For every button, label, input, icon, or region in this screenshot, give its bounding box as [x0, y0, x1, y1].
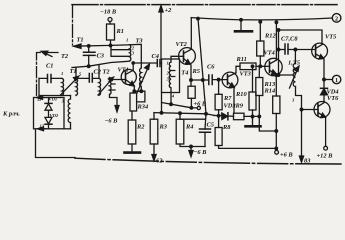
svg-text:+6 В: +6 В	[194, 101, 207, 108]
bias vertical from rail to C5	[198, 19, 206, 114]
wire emitter node to C6	[191, 79, 209, 81]
svg-text:С7,С8: С7,С8	[281, 36, 298, 43]
arrow -6V	[190, 147, 192, 153]
svg-text:VD2: VD2	[50, 113, 59, 118]
capacitor C6	[209, 75, 212, 85]
resistor R12	[259, 22, 261, 42]
svg-text:R14: R14	[264, 88, 276, 95]
chassis ground on rail	[240, 20, 242, 31]
svg-text:R10: R10	[235, 91, 247, 98]
arrow +2 to shield	[160, 7, 162, 59]
transistor VT2	[179, 48, 196, 65]
VT5 emitter down to node 1	[322, 58, 325, 79]
svg-text:R2: R2	[136, 124, 145, 131]
svg-text:С5: С5	[207, 122, 215, 129]
transformer T1 secondary winding	[76, 78, 78, 95]
VT2 emitter down	[189, 64, 192, 86]
svg-text:VD3: VD3	[224, 103, 237, 110]
resistor R11	[240, 63, 256, 70]
capacitor C4	[157, 60, 160, 67]
wire T2 secondary bottom to -6V arrow	[110, 95, 118, 110]
svg-text:R34: R34	[137, 104, 149, 111]
wire R4 top to C5 (parallel loop)	[180, 118, 205, 120]
capacitor C1 loop	[39, 77, 62, 79]
resistor R8	[215, 128, 222, 146]
shield border top (dash-dot)	[72, 4, 337, 6]
svg-text:+12 В: +12 В	[317, 153, 334, 160]
resistor R9	[234, 113, 245, 120]
T4 pin4 wire down to +6V wire	[170, 93, 172, 105]
rectangle left leg down to emitter wire	[278, 30, 280, 75]
svg-text:1: 1	[126, 38, 128, 43]
VT2 collector up to rail	[190, 18, 192, 50]
svg-text:−18 В: −18 В	[100, 9, 117, 16]
node C7/T5	[294, 48, 297, 51]
transistor VT6	[314, 102, 330, 118]
resistor R7	[218, 80, 220, 95]
wire R34 to R2	[131, 111, 133, 120]
wire VT6 base feed	[302, 109, 319, 111]
wire T2 primary top stem	[98, 65, 100, 78]
capacitor C3	[88, 46, 90, 52]
svg-text:С4: С4	[152, 53, 159, 60]
transformer T1 primary winding	[62, 78, 64, 95]
resistor R10	[252, 66, 254, 92]
VT4 emitter to R14	[275, 74, 277, 96]
svg-text:VT5: VT5	[325, 34, 337, 41]
wire VT1 collector up	[132, 63, 134, 70]
transformer T2 secondary winding	[110, 78, 112, 95]
svg-text:R9: R9	[235, 103, 244, 110]
wire R1 bottom to T3	[75, 40, 130, 46]
C7/C8 feed rectangle	[279, 30, 323, 44]
resistor R34	[132, 91, 134, 93]
svg-text:К рлч.: К рлч.	[2, 111, 20, 118]
transistor VT5	[312, 43, 328, 59]
coil T3 secondary winding	[140, 68, 142, 91]
coil T3 secondary stem	[130, 44, 142, 68]
wire R14 to +6V terminal	[275, 114, 277, 151]
wire T1 secondary top stem	[75, 67, 77, 78]
arrow to shield T2	[43, 52, 52, 56]
svg-text:+6 В: +6 В	[280, 152, 293, 159]
svg-text:−6 В: −6 В	[105, 118, 119, 125]
bottom shield line (dash-dot)	[75, 158, 343, 164]
ground under R2	[131, 144, 133, 152]
diode VD1	[48, 98, 50, 104]
svg-text:13: 13	[40, 124, 45, 129]
T3 tap comb	[111, 45, 130, 56]
svg-text:Т1: Т1	[70, 68, 77, 75]
wire R5 bottom to +6V wire	[190, 98, 192, 108]
+6V upper wire W1	[162, 103, 198, 108]
terminal +12V	[324, 146, 328, 150]
T1 secondary bottom tie	[75, 94, 77, 96]
capacitor C7/C8	[279, 49, 286, 51]
VT4 collector to rail	[275, 22, 277, 60]
wire VT1 emitter down	[133, 86, 135, 91]
svg-text:R4: R4	[185, 124, 193, 131]
shield border left vertical (dash-dot)	[72, 5, 74, 45]
diode VD4	[323, 80, 325, 89]
T4 outer leg from box bottom	[161, 93, 163, 114]
svg-text:1,Т5: 1,Т5	[288, 60, 301, 67]
wire R8 bottom to +6V bus	[219, 146, 277, 149]
terminal 1	[332, 75, 340, 83]
node: R1/C3 junction	[87, 45, 90, 48]
top rail wire to terminal 2	[191, 18, 332, 20]
T4 pin1 wire to VT2 base	[171, 56, 184, 62]
T4 taps	[171, 71, 175, 77]
wire	[109, 22, 111, 25]
common bus wire	[72, 61, 130, 67]
svg-text:Т2: Т2	[103, 69, 111, 76]
wire R7 to VD3 node	[218, 110, 220, 128]
capacitor C5	[205, 114, 206, 129]
transistor VT3	[222, 72, 238, 88]
input shield corner (dash-dot)	[37, 53, 59, 98]
resistor R14	[273, 96, 280, 114]
wire emitter to T5 area	[276, 74, 292, 76]
VT6 emitter to +12V	[324, 117, 326, 146]
T1 lower winding	[68, 96, 70, 129]
svg-text:−6 В: −6 В	[194, 149, 208, 156]
svg-text:VT4: VT4	[264, 50, 275, 57]
svg-text:R7: R7	[223, 95, 232, 102]
svg-text:83: 83	[304, 158, 311, 165]
svg-text:VT2: VT2	[176, 41, 188, 48]
arrow to shield T1	[74, 44, 81, 48]
T3 secondary tuning arrow	[137, 67, 149, 94]
svg-text:1: 1	[61, 71, 63, 76]
svg-text:С3: С3	[97, 53, 105, 60]
resistor R2	[128, 120, 136, 144]
wire T5 bottom down to shield arrow	[296, 87, 302, 157]
transistor VT4	[265, 58, 282, 75]
svg-text:R1: R1	[116, 28, 124, 35]
resistor R1	[107, 24, 115, 40]
svg-text:Т2: Т2	[61, 53, 69, 60]
svg-text:+2: +2	[165, 7, 173, 14]
svg-text:С2: С2	[94, 69, 102, 76]
svg-text:R8: R8	[222, 124, 231, 131]
box bottom extension	[64, 128, 71, 130]
svg-text:VT1: VT1	[118, 67, 129, 74]
diode VD2	[45, 117, 52, 123]
svg-text:R12: R12	[264, 33, 276, 40]
T5 tuning arrow	[290, 69, 298, 89]
svg-text:11: 11	[37, 97, 41, 102]
svg-text:Т3: Т3	[136, 38, 144, 45]
svg-text:R5: R5	[192, 68, 201, 75]
svg-text:R11: R11	[236, 56, 247, 63]
T2 secondary taps	[112, 84, 116, 90]
svg-text:R3: R3	[159, 124, 168, 131]
varactor box VD1/VD2	[34, 98, 65, 129]
svg-text:1: 1	[167, 61, 169, 66]
VT1 emitter network loop	[134, 91, 145, 102]
terminal 2	[332, 14, 341, 23]
svg-text:VT6: VT6	[327, 95, 339, 102]
wire collector bus y63	[133, 62, 157, 64]
transformer T5 winding	[293, 64, 295, 87]
arrow on box top	[38, 97, 44, 99]
diode VD3	[206, 114, 234, 117]
resistor R4	[179, 113, 181, 119]
resistor R5	[188, 86, 195, 98]
svg-text:2: 2	[335, 15, 338, 22]
terminal -18V	[108, 18, 112, 22]
wire T2 to VT1 base	[110, 78, 126, 80]
svg-text:VD1: VD1	[49, 97, 58, 102]
lower bias bus W2	[154, 113, 206, 114]
bottom-left shield corner wire	[36, 130, 76, 158]
T4 winding	[169, 62, 171, 93]
svg-text:С1: С1	[46, 63, 53, 70]
C4 wire into box	[160, 62, 162, 64]
T2 tuning arrow	[98, 80, 112, 96]
oscillator coil T3 winding	[130, 45, 131, 61]
capacitor C2	[76, 77, 99, 79]
ground stub under R10	[252, 117, 254, 126]
resistor R3	[153, 113, 155, 120]
arrow on box bottom	[38, 128, 46, 130]
transformer T4 shield box	[162, 59, 180, 93]
VT3 emitter down to R9 top	[233, 87, 235, 113]
transistor VT1	[121, 69, 136, 84]
svg-text:1: 1	[335, 77, 338, 84]
svg-text:Т1: Т1	[77, 37, 84, 44]
svg-text:VT3: VT3	[240, 71, 252, 78]
wire node to terminal 1	[324, 79, 332, 81]
terminal +6V	[275, 150, 279, 154]
svg-text:С6: С6	[207, 63, 215, 70]
terminal +6V small	[197, 106, 200, 109]
T1 tuning arrow	[60, 79, 77, 96]
transformer T2 primary winding	[99, 78, 101, 95]
VT3 collector up to R11	[236, 66, 240, 73]
resistor R13	[258, 66, 260, 77]
svg-text:Т4: Т4	[181, 70, 188, 77]
svg-text:62: 62	[156, 158, 163, 165]
